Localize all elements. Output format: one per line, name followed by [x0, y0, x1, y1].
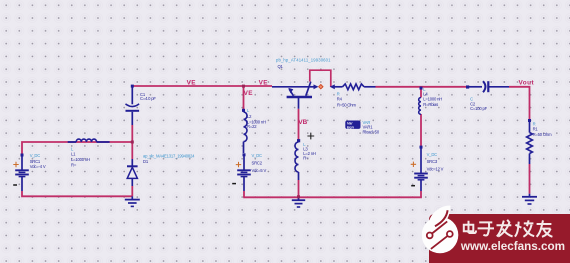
- DC source SRC3 battery symbol: [420, 149, 422, 174]
- svg-text:C=100 pF: C=100 pF: [470, 106, 488, 111]
- inductor L4 coil on bias branch: [419, 98, 421, 115]
- svg-text:SRC3: SRC3: [427, 159, 438, 164]
- current probe arrowhead: [314, 84, 319, 89]
- wire SRC2 bottom lead: [243, 191, 245, 197]
- pin SRC2 plus terminal: [243, 153, 246, 156]
- cross marker near L3: [307, 133, 314, 140]
- VAR equation block VAR1: [345, 121, 360, 129]
- watermark logo leaf gap: [435, 210, 448, 226]
- SRC1 plus sign: [13, 162, 18, 167]
- capacitor C2 right lead: [488, 86, 509, 88]
- svg-text:www.elecfans.com: www.elecfans.com: [460, 240, 565, 253]
- svg-text:R=Rbias: R=Rbias: [423, 102, 438, 107]
- svg-text:D1: D1: [143, 159, 149, 164]
- capacitor C2 straight plate: [487, 81, 489, 92]
- pin L3 top: [297, 139, 300, 142]
- svg-text:C=4.0 pF: C=4.0 pF: [140, 96, 156, 101]
- wire SRC3 bottom lead: [420, 191, 422, 197]
- svg-text:Rload=50: Rload=50: [363, 130, 380, 135]
- ground under R1: [529, 194, 531, 197]
- inductor L3 coil on base branch: [298, 141, 300, 142]
- svg-text:SRC2: SRC2: [252, 160, 263, 165]
- svg-text:L=1000 nH: L=1000 nH: [423, 96, 442, 101]
- wire R1 bottom to ground: [529, 164, 531, 194]
- junction C1/L1/D1: [131, 141, 134, 144]
- capacitor C1 leads: [131, 88, 133, 105]
- capacitor C2 curved plate: [483, 81, 485, 92]
- SRC1 minus sign: [13, 184, 17, 186]
- wire R4 to C2: [376, 86, 467, 88]
- svg-text:V_DC: V_DC: [427, 152, 438, 157]
- svg-text:Vdc=5 V: Vdc=5 V: [252, 168, 267, 173]
- svg-text:R=50 Ohm: R=50 Ohm: [533, 132, 552, 137]
- wire net VE top rail (C1 top to Q1 emitter lead): [132, 85, 272, 87]
- junction node VE: [242, 85, 245, 88]
- SRC2 plus sign: [236, 162, 241, 167]
- svg-text:R=22: R=22: [247, 124, 257, 129]
- svg-text:VE: VE: [244, 90, 254, 97]
- svg-text:R=: R=: [303, 156, 309, 161]
- svg-text:Vout: Vout: [519, 79, 535, 86]
- svg-text:Q1: Q1: [278, 64, 284, 69]
- wire SRC1 top to L1 to C1 junction: [22, 142, 132, 155]
- wire node Vout: C2 to R1 corner: [509, 87, 530, 120]
- junction bottom rail ground: [297, 195, 300, 198]
- svg-text:VB: VB: [298, 119, 307, 126]
- ground under base branch: [298, 197, 300, 201]
- pin SRC3 plus terminal: [420, 146, 423, 149]
- wire top rail junction down to L4: [420, 87, 422, 98]
- SRC3 plus sign: [411, 162, 416, 167]
- DC source SRC2 battery symbol: [243, 156, 245, 170]
- watermark red box: [429, 214, 570, 263]
- transistor Q1 emitter arrowhead: [288, 88, 293, 94]
- svg-text:V_DC: V_DC: [30, 153, 41, 158]
- svg-text:V_DC: V_DC: [252, 153, 263, 158]
- watermark logo leaf: [429, 206, 451, 230]
- wire Q1 emitter lead: [272, 86, 310, 88]
- wire C1 bottom to D1 cathode: [131, 125, 133, 159]
- inductor L2 coil on VE branch: [243, 111, 245, 114]
- svg-text:ap_slc_MA4E1317_19940824: ap_slc_MA4E1317_19940824: [143, 153, 195, 158]
- inductor L1 leads: [68, 141, 110, 143]
- pin L4 top junction: [420, 87, 423, 90]
- svg-text:pb_hp_AT41411_19930601: pb_hp_AT41411_19930601: [276, 58, 331, 63]
- svg-text:VE: VE: [259, 79, 269, 86]
- SRC2 minus sign: [232, 183, 236, 185]
- unconnected pin marker diamond: [319, 85, 323, 89]
- capacitor C1 plates: [126, 104, 140, 107]
- resistor R4 leads and zigzag: [334, 86, 343, 88]
- pin C1 top: [131, 85, 134, 88]
- svg-text:R4: R4: [337, 97, 343, 102]
- wire bottom rail SRC2 to SRC3: [243, 196, 422, 198]
- svg-text:Eqn: Eqn: [347, 125, 355, 129]
- wire L4 to SRC3: [420, 114, 422, 146]
- ground under D1: [131, 196, 133, 199]
- svg-text:R=: R=: [71, 162, 77, 167]
- current probe arrow shaft at Q1 collector: [310, 86, 315, 88]
- svg-text:VE: VE: [187, 80, 197, 87]
- svg-text:Vdc=12 V: Vdc=12 V: [427, 166, 444, 171]
- wire node VB: Q1 base down to L3: [298, 109, 300, 141]
- wire VE junction down to L2: [243, 86, 245, 110]
- resistor R1 leads and zigzag: [529, 122, 531, 133]
- wire SRC1 bottom to D1 anode rail: [22, 191, 132, 196]
- svg-text:Vdc=-4 V: Vdc=-4 V: [30, 164, 46, 169]
- svg-text:VAR1: VAR1: [363, 124, 374, 129]
- pin R1 top: [528, 119, 531, 122]
- wire Q1 collector loop to R4: [310, 70, 331, 87]
- pin SRC1 plus terminal: [21, 154, 24, 157]
- pin C2 left: [466, 85, 469, 88]
- inductor L1 coil: [76, 139, 96, 142]
- svg-text:L=1000 nH: L=1000 nH: [71, 157, 90, 162]
- SRC3 minus sign: [411, 185, 415, 187]
- diode D1 (ap_slc, cathode bar top, anode triangle): [131, 159, 133, 166]
- resistor R4 left arrowhead: [330, 84, 335, 89]
- wire L3 to bottom rail: [298, 180, 300, 197]
- transistor Q1 (pb_hp_AT41411, base bar / emitter slant / collector slant / base lead): [287, 96, 312, 99]
- svg-text:R=50 Ohm: R=50 Ohm: [337, 103, 356, 108]
- watermark brand glyphs: [464, 220, 553, 237]
- watermark logo pads and traces: [427, 233, 433, 239]
- DC source SRC1 battery symbol: [21, 156, 23, 170]
- watermark logo disc: [422, 217, 459, 254]
- svg-text:R1: R1: [533, 126, 539, 131]
- pin L2 top: [242, 109, 245, 112]
- wire D1 anode to ground junction: [131, 186, 133, 196]
- capacitor C2 left lead: [468, 86, 483, 88]
